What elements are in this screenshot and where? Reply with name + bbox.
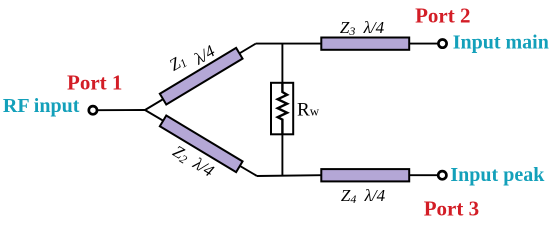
transmission line Z4 [321,169,409,181]
wire: bottom rail left segment [257,174,321,177]
resistor Rw zigzag [278,82,287,135]
transmission line Z3 [321,38,409,50]
transmission line Z1 (rotated rect) [160,48,243,105]
wire: bottom rail right segment to Port 3 terminal [409,174,438,176]
transmission line Z2 (rotated rect) [160,116,243,173]
svg-text:Z3 λ/4: Z3 λ/4 [340,18,385,38]
svg-text:RF input: RF input [3,95,80,117]
svg-text:Input peak: Input peak [450,164,545,186]
terminal circle Port 3 [438,171,446,179]
wire: top rail right segment to Port 2 terminal [409,43,438,45]
wire: top rail left segment [256,43,321,45]
wire: Port 1 lead [97,109,145,111]
svg-text:Z1: Z1 [166,50,190,75]
resistor Rw box [271,83,293,135]
terminal circle Port 2 [438,40,446,48]
svg-text:Port 1: Port 1 [67,70,122,94]
svg-text:Port 3: Port 3 [424,196,479,220]
svg-text:Z4 λ/4: Z4 λ/4 [341,186,386,206]
svg-text:Input main: Input main [453,31,549,53]
wire: lower branch fork to bottom-left bend [145,110,257,176]
wire: upper branch fork to top-left bend [145,44,256,110]
wire: vertical isolation branch (top junction to bottom junction) [281,44,283,176]
svg-text:Port 2: Port 2 [415,3,470,27]
svg-text:Rw: Rw [297,99,320,120]
terminal circle Port 1 [89,106,97,114]
